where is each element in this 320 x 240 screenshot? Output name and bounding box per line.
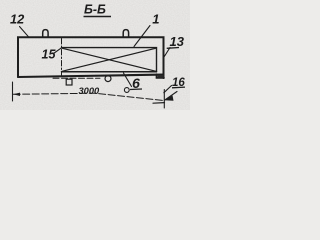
svg-text:Б-Б: Б-Б: [84, 3, 106, 17]
svg-text:6: 6: [132, 76, 140, 92]
svg-text:3000: 3000: [79, 86, 101, 96]
svg-text:13: 13: [170, 34, 185, 49]
svg-text:12: 12: [10, 12, 24, 27]
svg-text:16: 16: [172, 77, 185, 89]
svg-text:1: 1: [152, 12, 159, 27]
svg-text:15: 15: [42, 48, 57, 62]
